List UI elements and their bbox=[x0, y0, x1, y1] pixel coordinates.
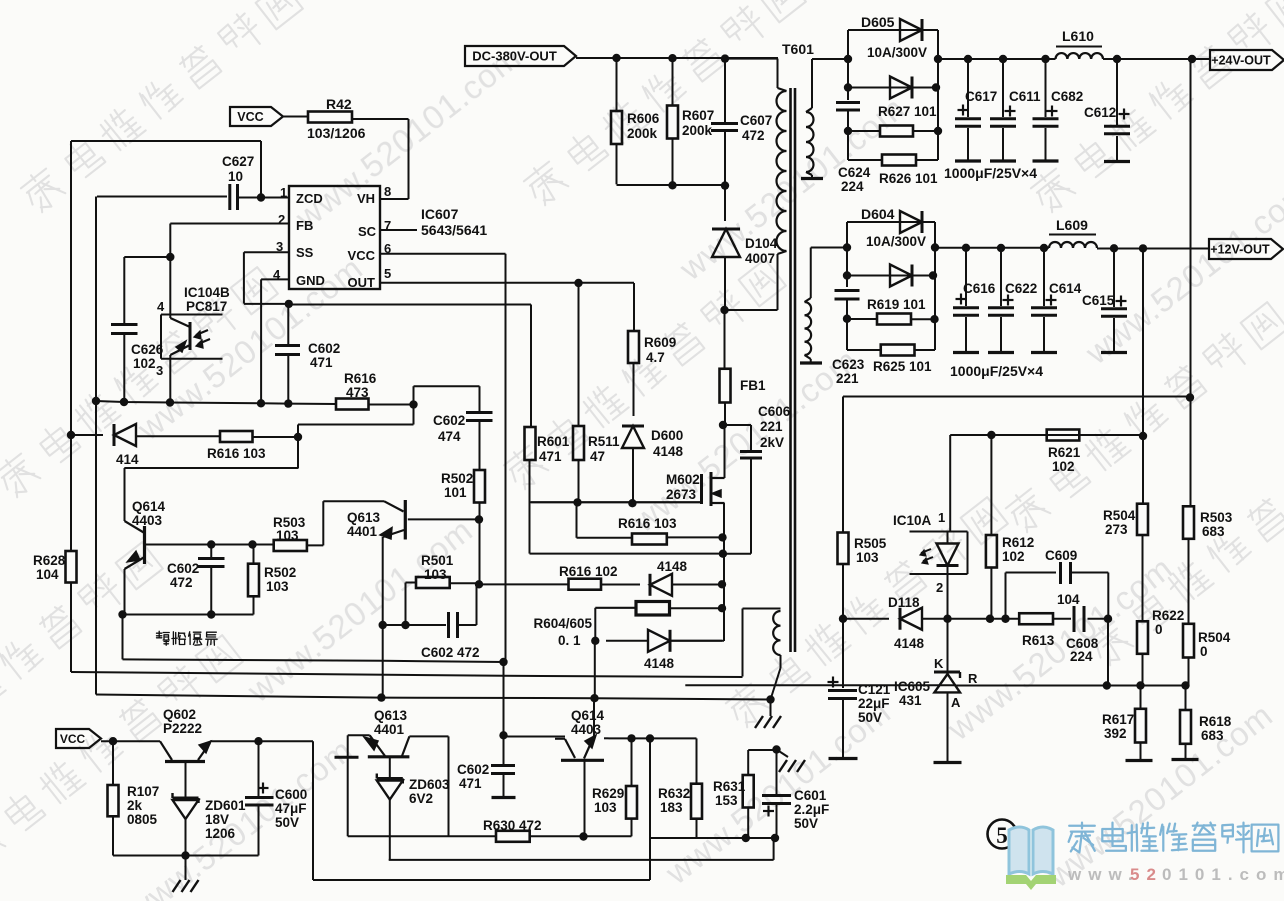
svg-text:1000μF/25V×4: 1000μF/25V×4 bbox=[944, 165, 1037, 181]
node bus C602col bbox=[284, 399, 292, 407]
flag +12V-OUT bbox=[1209, 239, 1283, 259]
wire R511 down to gate row bbox=[578, 460, 580, 502]
svg-text:C601: C601 bbox=[794, 788, 827, 803]
svg-text:R631: R631 bbox=[713, 779, 746, 794]
wire sec2 to rail bbox=[811, 247, 847, 249]
resistor R630 472 bbox=[348, 835, 496, 837]
wire R501 row bbox=[479, 520, 481, 585]
node primary return bbox=[720, 306, 728, 314]
node column608 bbox=[718, 604, 726, 612]
transistor Q614 lower bbox=[561, 759, 604, 762]
svg-text:R511: R511 bbox=[588, 434, 620, 449]
node emitter row C602 bbox=[207, 610, 215, 618]
svg-text:R625 101: R625 101 bbox=[873, 359, 932, 374]
node bus C626 bbox=[120, 398, 128, 406]
svg-text:IC104B: IC104B bbox=[184, 285, 230, 300]
node C601 bottom bbox=[771, 834, 779, 842]
svg-text:10A/300V: 10A/300V bbox=[866, 234, 926, 249]
resistor R503 683 bbox=[1183, 506, 1194, 539]
resistor R504 0 bbox=[1183, 624, 1194, 658]
diode D118 4148 bbox=[843, 618, 889, 620]
logo book icon bbox=[1009, 827, 1053, 874]
diode 414 bbox=[114, 424, 136, 446]
wire diode to column bbox=[672, 584, 722, 586]
svg-text:R501: R501 bbox=[421, 553, 454, 568]
wire gnd3 stem bbox=[777, 750, 789, 758]
svg-text:C614: C614 bbox=[1049, 281, 1082, 296]
node OUT-R511 bbox=[574, 279, 582, 287]
resistor R502 103 bbox=[253, 545, 255, 564]
wire R616 right to node bbox=[369, 404, 414, 406]
wire feedback top to long line bbox=[742, 609, 744, 677]
transistor Q602 P2222 bbox=[160, 741, 172, 760]
svg-text:VCC: VCC bbox=[237, 110, 263, 124]
resistor R616 103 upper bbox=[220, 431, 253, 442]
svg-text:0. 1: 0. 1 bbox=[558, 633, 581, 648]
capacitor C627 bbox=[228, 184, 231, 210]
wire R616 mid to M602 column bbox=[667, 536, 723, 538]
resistor R616 473 bbox=[336, 399, 369, 410]
capacitor C608 224 bbox=[1053, 618, 1071, 620]
op-amp U1 IC607 controller box bbox=[289, 186, 380, 289]
node diode row right bbox=[294, 433, 302, 441]
svg-text:1000μF/25V×4: 1000μF/25V×4 bbox=[950, 363, 1043, 379]
node VCC-R107 bbox=[109, 737, 117, 745]
svg-text:47μF: 47μF bbox=[275, 801, 307, 816]
svg-text:C615: C615 bbox=[1082, 293, 1115, 308]
svg-text:103: 103 bbox=[424, 567, 447, 582]
svg-text:471: 471 bbox=[539, 449, 562, 464]
svg-text:IC607: IC607 bbox=[421, 206, 459, 222]
zener ZD603 6V2 bbox=[389, 757, 391, 777]
flag +24V-OUT bbox=[1210, 50, 1284, 70]
svg-text:R42: R42 bbox=[326, 96, 352, 112]
node SS row bbox=[285, 300, 293, 308]
wire C601 loop corner bbox=[773, 838, 775, 860]
svg-text:103: 103 bbox=[276, 528, 299, 543]
svg-text:5: 5 bbox=[384, 266, 391, 281]
svg-text:2: 2 bbox=[936, 580, 943, 595]
node row738-R629 bbox=[627, 734, 635, 742]
wire R net row bbox=[685, 684, 956, 686]
node sec1-block bbox=[844, 55, 852, 63]
resistor R616 103 mid bbox=[632, 534, 667, 545]
svg-text:52: 52 bbox=[1130, 865, 1163, 884]
wire optocoupler top corner bbox=[124, 256, 170, 258]
wire bottom row 838 bbox=[697, 837, 776, 839]
wire R503683 down bbox=[1188, 539, 1190, 624]
svg-text:SS: SS bbox=[296, 245, 314, 260]
svg-text:5643/5641: 5643/5641 bbox=[421, 222, 487, 238]
transistor M602 MOSFET bbox=[710, 472, 713, 506]
resistor R626 101 bbox=[882, 155, 916, 166]
svg-text:392: 392 bbox=[1104, 726, 1127, 741]
node d2r12 bbox=[929, 271, 937, 279]
capacitor C600 47uF 50V bbox=[258, 741, 260, 796]
capacitor C602 472 left bbox=[210, 545, 212, 558]
capacitor C623 221 bbox=[846, 276, 848, 288]
svg-text:224: 224 bbox=[841, 179, 864, 194]
svg-text:50V: 50V bbox=[858, 710, 882, 725]
svg-text:200k: 200k bbox=[627, 126, 658, 141]
svg-text:R627 101: R627 101 bbox=[878, 104, 937, 119]
wire node310 down to FB1 bbox=[724, 310, 726, 369]
svg-text:472: 472 bbox=[742, 128, 765, 143]
svg-text:FB1: FB1 bbox=[740, 378, 766, 393]
node d2l12 bbox=[843, 271, 851, 279]
wire R505 column top bbox=[842, 397, 844, 533]
svg-text:R609: R609 bbox=[644, 335, 676, 350]
svg-text:153: 153 bbox=[715, 793, 738, 808]
node VCC-emitter row bbox=[499, 658, 507, 666]
wire C606 branch bbox=[723, 424, 751, 426]
svg-text:Q614: Q614 bbox=[132, 499, 166, 514]
svg-text:472: 472 bbox=[170, 575, 193, 590]
svg-text:104: 104 bbox=[1057, 592, 1080, 607]
wire R622 down bbox=[1142, 654, 1144, 686]
R618 ground bar bbox=[1172, 758, 1199, 761]
node rail C607 bbox=[721, 54, 729, 62]
wire x96 lower bbox=[95, 403, 97, 695]
capacitor C607 472 bbox=[724, 58, 726, 123]
wire C627 left bbox=[95, 197, 97, 402]
resistor R606 200k bbox=[616, 58, 618, 111]
capacitor C682 bbox=[1045, 59, 1047, 117]
node R619 right bbox=[930, 315, 938, 323]
svg-text:5: 5 bbox=[996, 823, 1008, 848]
svg-text:200k: 200k bbox=[682, 123, 713, 138]
wire node down-left to R616-103 column bbox=[413, 405, 415, 425]
wire emitter down to long row bbox=[122, 615, 124, 660]
wire L610 to +24V flag bbox=[1103, 58, 1210, 60]
wire gnd stem2 bbox=[770, 700, 772, 717]
svg-text:4148: 4148 bbox=[657, 559, 688, 574]
svg-text:0: 0 bbox=[1200, 644, 1208, 659]
diode D605b bbox=[890, 77, 912, 99]
svg-text:R617: R617 bbox=[1102, 712, 1134, 727]
svg-text:VH: VH bbox=[357, 191, 375, 206]
transistor Q613 upper bbox=[404, 500, 407, 540]
wire L609 to +12V flag bbox=[1097, 248, 1209, 250]
capacitor C611 bbox=[1002, 59, 1004, 117]
svg-text:4: 4 bbox=[157, 299, 165, 314]
wire R504273 down bbox=[1142, 535, 1144, 621]
svg-text:R613: R613 bbox=[1022, 633, 1055, 648]
node row618 right bbox=[1104, 615, 1112, 623]
node base-C602472 bbox=[207, 540, 215, 548]
wire node up-over to C602 474 bbox=[413, 386, 415, 404]
svg-text:L609: L609 bbox=[1056, 217, 1088, 233]
node D600-gate row bbox=[628, 499, 636, 507]
wire x298 column bbox=[297, 425, 299, 469]
node Q613 emitter bottom bbox=[379, 621, 387, 629]
wire D104 column top bbox=[724, 186, 726, 221]
secondary-1 end bar bbox=[801, 177, 823, 180]
node R616-473 output bbox=[409, 400, 417, 408]
wire row618 left bbox=[948, 618, 991, 620]
node right-12v rail bbox=[931, 243, 939, 251]
resistor R618 683 bbox=[1185, 686, 1187, 711]
wire C608col down to R row bbox=[1107, 619, 1109, 686]
resistor R621 102 bbox=[1047, 430, 1080, 441]
svg-text:0101.com: 0101.com bbox=[1162, 865, 1284, 884]
svg-text:4401: 4401 bbox=[347, 524, 378, 539]
svg-text:OUT: OUT bbox=[348, 275, 376, 290]
capacitor C602 471 (by IC) bbox=[275, 344, 300, 347]
wire x595 down to ground row bbox=[594, 641, 596, 698]
svg-text:K: K bbox=[934, 656, 944, 671]
wire OUT pin5 net bbox=[380, 282, 634, 284]
svg-text:221: 221 bbox=[760, 419, 783, 434]
wire GND pin4 down bbox=[261, 278, 289, 280]
wire lower rail bbox=[617, 184, 726, 186]
svg-text:C602: C602 bbox=[457, 762, 489, 777]
svg-text:10A/300V: 10A/300V bbox=[867, 45, 927, 60]
node gnd junction bbox=[181, 851, 189, 859]
wire feedback column to diode bbox=[71, 434, 103, 436]
svg-text:4007: 4007 bbox=[745, 251, 775, 266]
optocoupler IC104B PC817 bbox=[161, 314, 223, 316]
node emitter row left bbox=[118, 610, 126, 618]
wire drain up bbox=[724, 425, 726, 478]
svg-text:431: 431 bbox=[899, 693, 922, 708]
node rail C612 bbox=[1113, 55, 1121, 63]
svg-text:T601: T601 bbox=[782, 41, 814, 57]
capacitor C609 104 bbox=[1059, 562, 1062, 584]
resistor R617 392 bbox=[1140, 686, 1142, 709]
wire FB pin2 to optocoupler bbox=[170, 223, 289, 225]
svg-text:101: 101 bbox=[444, 485, 467, 500]
zener ZD601 18V 1206 bbox=[185, 762, 187, 798]
capacitor C616 bbox=[965, 248, 967, 306]
capacitor C612 bbox=[1116, 59, 1118, 125]
capacitor C602 472 lower bbox=[447, 612, 450, 638]
resistor R629 103 bbox=[631, 738, 633, 786]
svg-text:C606: C606 bbox=[758, 404, 791, 419]
capacitor C601 2.2uF 50V bbox=[776, 750, 778, 795]
svg-text:4148: 4148 bbox=[653, 444, 684, 459]
wire gnd stem bbox=[185, 856, 187, 881]
wire R609 to D600 bbox=[633, 363, 635, 416]
resistor R504 273 bbox=[1137, 504, 1148, 535]
svg-text:3: 3 bbox=[156, 363, 163, 378]
wire elbow to R616 103 mid bbox=[576, 502, 578, 537]
svg-text:471: 471 bbox=[310, 355, 333, 370]
svg-text:www.: www. bbox=[1067, 865, 1140, 884]
node R627 right bbox=[934, 127, 942, 135]
wire VCC loop to R632 top bbox=[312, 741, 314, 880]
wire top-left loop bbox=[71, 140, 261, 142]
resistor R503 103 bbox=[274, 540, 307, 551]
svg-text:VCC: VCC bbox=[60, 732, 86, 746]
svg-text:Q613: Q613 bbox=[374, 708, 408, 723]
svg-text:R616 103: R616 103 bbox=[207, 446, 266, 461]
ground primary bbox=[755, 716, 763, 728]
node +24V feedback bbox=[1188, 55, 1196, 63]
svg-text:414: 414 bbox=[116, 452, 139, 467]
capacitor C614 bbox=[1043, 248, 1045, 306]
capacitor C622 bbox=[1000, 248, 1002, 306]
wire SS row to R601 column bbox=[289, 304, 531, 306]
svg-text:2k: 2k bbox=[127, 798, 143, 813]
svg-text:2kV: 2kV bbox=[760, 435, 784, 450]
resistor R42 bbox=[308, 112, 352, 123]
T601 secondary winding 24V bbox=[811, 59, 813, 108]
node R501 left bottom bbox=[401, 621, 409, 629]
svg-text:4401: 4401 bbox=[374, 722, 405, 737]
label short-circuit protection bbox=[157, 631, 170, 645]
node column584 bbox=[718, 580, 726, 588]
node R505-D118 bbox=[839, 615, 847, 623]
wire C626 column bbox=[123, 257, 125, 323]
svg-text:C600: C600 bbox=[275, 787, 307, 802]
node base-R502101 bbox=[475, 515, 483, 523]
diode D104 4007 bbox=[712, 229, 740, 257]
svg-text:ZCD: ZCD bbox=[296, 191, 323, 206]
svg-text:R607: R607 bbox=[682, 108, 714, 123]
node row695-Q613 bbox=[377, 693, 385, 701]
svg-text:683: 683 bbox=[1201, 728, 1224, 743]
resistor R628 104 bbox=[66, 551, 77, 583]
node rail C611 bbox=[999, 55, 1007, 63]
T601 primary winding bbox=[725, 58, 778, 60]
svg-text:6V2: 6V2 bbox=[409, 791, 433, 806]
svg-text:C682: C682 bbox=[1051, 89, 1083, 104]
svg-text:FB: FB bbox=[296, 218, 313, 233]
svg-text:R503: R503 bbox=[1200, 510, 1233, 525]
wire C121 column bbox=[842, 619, 844, 688]
svg-text:R629: R629 bbox=[592, 786, 624, 801]
wire base row bbox=[146, 544, 274, 546]
wire SS pin3 loop bbox=[244, 251, 289, 253]
node rail2 C616 bbox=[962, 244, 970, 252]
svg-text:ZD603: ZD603 bbox=[409, 777, 450, 792]
svg-text:SC: SC bbox=[358, 224, 377, 239]
wire collector row bbox=[504, 736, 566, 738]
wire diode to R616 103 bbox=[136, 435, 220, 437]
wire long row 675 bbox=[71, 672, 743, 677]
wire D600 to gate row bbox=[632, 448, 634, 503]
wire VCC net lower bbox=[503, 662, 505, 735]
svg-text:C626: C626 bbox=[131, 342, 164, 357]
wire row396 bbox=[843, 396, 1190, 398]
svg-text:R601: R601 bbox=[537, 434, 570, 449]
wire C602-471a column bbox=[287, 304, 289, 344]
svg-text:R621: R621 bbox=[1048, 445, 1081, 460]
flag VCC top bbox=[230, 107, 283, 126]
wire 12v right column bbox=[934, 222, 936, 350]
node sec2-block bbox=[843, 243, 851, 251]
svg-text:0805: 0805 bbox=[127, 812, 158, 827]
node rail2 fb bbox=[1139, 244, 1147, 252]
svg-text:R604/605: R604/605 bbox=[534, 616, 593, 631]
node lower rail R607 bbox=[668, 181, 676, 189]
svg-text:C602: C602 bbox=[433, 413, 465, 428]
svg-text:4148: 4148 bbox=[644, 656, 675, 671]
capacitor C606 221 2kV bbox=[740, 450, 762, 453]
node rail2 C622 bbox=[997, 244, 1005, 252]
wire C627 to pin1 bbox=[239, 197, 289, 199]
wire +12V rail bbox=[935, 247, 1049, 249]
node fb24-row396 bbox=[1186, 393, 1194, 401]
resistor R627 101 bbox=[848, 130, 880, 132]
svg-text:104: 104 bbox=[36, 567, 59, 582]
svg-text:183: 183 bbox=[660, 800, 683, 815]
svg-text:C602: C602 bbox=[308, 341, 340, 356]
svg-text:2.2μF: 2.2μF bbox=[794, 802, 829, 817]
capacitor C602 471 lower bbox=[503, 735, 505, 764]
svg-text:C617: C617 bbox=[965, 89, 997, 104]
T601 secondary winding 12V bbox=[810, 248, 812, 299]
svg-text:4.7: 4.7 bbox=[646, 350, 665, 365]
svg-text:+24V-OUT: +24V-OUT bbox=[1211, 54, 1271, 68]
svg-text:4148: 4148 bbox=[894, 636, 925, 651]
wire diode2 branch 24V bbox=[847, 59, 849, 88]
svg-text:8: 8 bbox=[384, 184, 391, 199]
transistor Q614 upper bbox=[143, 526, 146, 564]
diode D604b bbox=[890, 265, 912, 287]
wire D604 branch bbox=[846, 222, 848, 248]
node row695-gnd bbox=[766, 695, 774, 703]
node bus opto bbox=[166, 398, 174, 406]
capacitor C626 bbox=[111, 323, 138, 326]
svg-text:0: 0 bbox=[1155, 622, 1163, 637]
svg-text:471: 471 bbox=[459, 776, 482, 791]
wire R628 column bbox=[70, 435, 72, 551]
node rail2 C614 bbox=[1040, 244, 1048, 252]
wire D104 to node310 bbox=[724, 257, 726, 310]
svg-text:22μF: 22μF bbox=[858, 696, 890, 711]
inductor L609 bbox=[1049, 242, 1097, 248]
wire +24V feedback column bbox=[1190, 59, 1192, 506]
wire Q614 collector row bbox=[504, 736, 556, 738]
wire R632 bottom row bbox=[650, 837, 746, 839]
wire sec1 to rail bbox=[812, 58, 848, 60]
resistor R502 101 bbox=[479, 421, 481, 471]
capacitor C624 224 bbox=[847, 88, 849, 101]
node bus GND-col bbox=[257, 399, 265, 407]
secondary-2 end bar bbox=[800, 361, 822, 364]
svg-text:R502: R502 bbox=[441, 471, 473, 486]
wire R503 to Q613 collector bbox=[307, 544, 323, 546]
wire main bus bbox=[96, 401, 336, 404]
svg-text:4403: 4403 bbox=[571, 722, 602, 737]
node base-R502103 bbox=[248, 540, 256, 548]
wire FB1 down bbox=[724, 403, 726, 426]
node column537 bbox=[718, 533, 726, 541]
wire R601 down bbox=[529, 460, 531, 554]
svg-text:R616: R616 bbox=[344, 371, 377, 386]
wire Q613lower left column bbox=[347, 757, 349, 836]
node rail C617 bbox=[964, 55, 972, 63]
node rail2 C615 bbox=[1110, 244, 1118, 252]
node Rrow-C608col bbox=[1103, 681, 1111, 689]
svg-text:273: 273 bbox=[1105, 522, 1128, 537]
svg-text:C622: C622 bbox=[1005, 281, 1037, 296]
svg-text:1: 1 bbox=[938, 510, 945, 525]
inductor L610 bbox=[1056, 53, 1104, 59]
svg-text:C623: C623 bbox=[832, 357, 865, 372]
svg-text:M602: M602 bbox=[666, 472, 700, 487]
node R630-Q614base bbox=[579, 832, 587, 840]
node R621-R612 bbox=[987, 431, 995, 439]
node x595-ground row bbox=[590, 694, 598, 702]
svg-text:4403: 4403 bbox=[132, 513, 163, 528]
node D118-IC605col bbox=[943, 615, 951, 623]
svg-text:102: 102 bbox=[1002, 549, 1025, 564]
wire emitter long row bbox=[123, 659, 504, 662]
svg-text:224: 224 bbox=[1070, 649, 1093, 664]
